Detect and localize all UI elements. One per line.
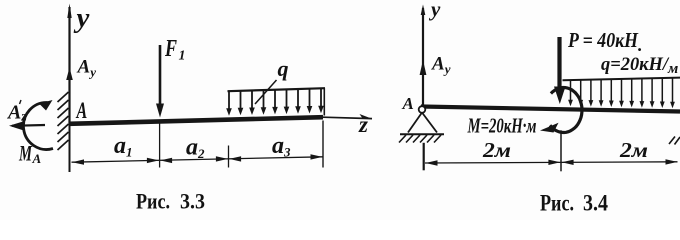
svg-text:Ay: Ay xyxy=(77,57,97,80)
svg-text:q=20кН/: q=20кН/ xyxy=(601,54,670,75)
svg-text:м: м xyxy=(667,61,678,77)
reaction arrow Ay (fig 3.3) xyxy=(66,68,73,81)
svg-text:P = 40кН: P = 40кН xyxy=(567,28,638,52)
svg-text:М=20кН·м: М=20кН·м xyxy=(467,114,537,138)
force P (fig 3.4) xyxy=(554,37,566,104)
svg-text:a1: a1 xyxy=(114,133,133,160)
dimension arrowheads (fig 3.3) xyxy=(72,154,323,165)
distributed load arrows (fig 3.4) xyxy=(568,78,675,108)
distributed load q top line (fig 3.3) xyxy=(228,88,326,91)
svg-text:Рис.: Рис. xyxy=(540,191,574,216)
svg-text:.: . xyxy=(638,35,643,55)
svg-text:a2: a2 xyxy=(186,135,205,162)
svg-text:Рис.: Рис. xyxy=(136,189,170,214)
wall hatching (fig 3.3) xyxy=(58,92,69,150)
svg-text:2м: 2м xyxy=(482,138,511,162)
prime tick above Az xyxy=(20,100,22,104)
support hatching (fig 3.4) xyxy=(399,135,441,143)
reaction arrow Ay (fig 3.4) xyxy=(420,60,427,75)
beam (fig 3.3) xyxy=(69,117,323,124)
svg-text:z: z xyxy=(358,112,368,137)
dimension line (fig 3.4) xyxy=(425,162,678,163)
svg-text:a3: a3 xyxy=(272,133,291,160)
extension line at beam end (fig 3.3) xyxy=(322,121,324,168)
arrowhead of MA xyxy=(39,100,53,111)
svg-text:A: A xyxy=(402,94,414,113)
svg-text:q: q xyxy=(278,56,289,81)
y-axis (fig 3.4) xyxy=(421,5,426,109)
pin support triangle (fig 3.4) xyxy=(408,113,437,133)
extension tick mid (fig 3.4) xyxy=(560,130,562,171)
q leader line (fig 3.3) xyxy=(255,80,277,104)
support ground line (fig 3.4) xyxy=(400,133,444,135)
reaction arrow Az (fig 3.3) xyxy=(9,122,45,131)
moment arc MA (fig 3.3) xyxy=(23,102,53,149)
svg-text:A: A xyxy=(75,98,87,123)
svg-text:y: y xyxy=(428,0,441,21)
dimension arrowheads (fig 3.4) xyxy=(426,159,678,166)
svg-text:Ay: Ay xyxy=(431,54,451,77)
distributed load q arrows (fig 3.3) xyxy=(226,88,324,115)
moment arc M (fig 3.4) xyxy=(550,88,582,133)
cut-off hatch mark at right edge (fig 3.4) xyxy=(669,137,680,145)
extension tick at load start (fig 3.3) xyxy=(228,146,230,168)
y-axis (fig 3.3) xyxy=(67,4,71,125)
svg-text:3.3: 3.3 xyxy=(180,189,205,214)
svg-text:3.4: 3.4 xyxy=(583,191,608,216)
svg-text:y: y xyxy=(74,2,90,34)
force F1 (fig 3.3) xyxy=(156,45,164,118)
svg-text:2м: 2м xyxy=(619,138,648,162)
extension line below support (fig 3.4) xyxy=(423,143,425,171)
beam (fig 3.4) xyxy=(421,107,680,112)
svg-text:F1: F1 xyxy=(164,36,185,64)
z-axis (fig 3.3) xyxy=(323,114,372,119)
distributed load q top line (fig 3.4) xyxy=(563,78,680,81)
svg-text:MA: MA xyxy=(18,141,41,167)
dimension line (fig 3.3) xyxy=(72,157,324,162)
arrowhead of moment M (fig 3.4) xyxy=(540,123,559,133)
pin circle (fig 3.4) xyxy=(419,106,426,113)
fixed wall line (fig 3.3) xyxy=(69,88,71,172)
extension line under F1 (fig 3.3) xyxy=(159,120,161,168)
